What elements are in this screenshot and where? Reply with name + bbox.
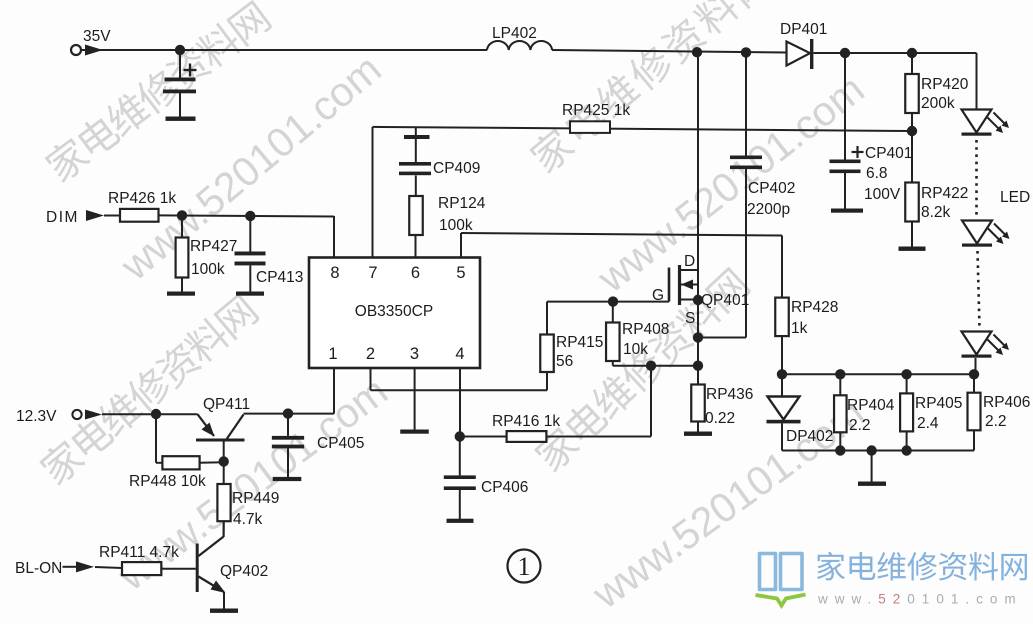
svg-text:CP413: CP413 <box>256 269 303 286</box>
svg-text:RP416 1k: RP416 1k <box>492 413 560 430</box>
svg-text:200k: 200k <box>921 95 955 112</box>
svg-text:6.8: 6.8 <box>866 165 888 182</box>
svg-text:6: 6 <box>411 264 420 282</box>
svg-text:2.2: 2.2 <box>849 417 871 434</box>
svg-text:DIM: DIM <box>46 209 79 226</box>
svg-text:0.22: 0.22 <box>705 410 735 427</box>
svg-text:RP405: RP405 <box>915 395 962 412</box>
svg-text:RP411 4.7k: RP411 4.7k <box>99 544 179 561</box>
svg-text:35V: 35V <box>83 28 111 45</box>
svg-text:100k: 100k <box>191 261 225 278</box>
svg-text:12.3V: 12.3V <box>16 408 57 425</box>
svg-text:RP422: RP422 <box>921 185 968 202</box>
svg-text:CP401: CP401 <box>865 145 912 162</box>
svg-text:RP408: RP408 <box>622 321 669 338</box>
svg-text:RP415: RP415 <box>556 334 603 351</box>
svg-text:RP420: RP420 <box>921 76 969 93</box>
svg-text:OB3350CP: OB3350CP <box>355 303 433 320</box>
svg-text:100V: 100V <box>864 186 901 203</box>
svg-text:CP402: CP402 <box>748 180 795 197</box>
svg-text:RP124: RP124 <box>438 195 486 212</box>
svg-text:8.2k: 8.2k <box>921 204 951 221</box>
svg-text:4.7k: 4.7k <box>233 511 263 528</box>
svg-text:2: 2 <box>366 345 375 363</box>
svg-text:1k: 1k <box>791 320 808 337</box>
svg-text:LP402: LP402 <box>492 25 537 42</box>
svg-text:1: 1 <box>518 552 531 581</box>
svg-text:DP402: DP402 <box>786 428 833 445</box>
svg-text:RP427: RP427 <box>190 238 237 255</box>
svg-text:5: 5 <box>456 264 465 282</box>
svg-text:QP411: QP411 <box>203 396 250 413</box>
svg-text:RP404: RP404 <box>847 397 895 414</box>
svg-text:RP436: RP436 <box>706 386 753 403</box>
svg-text:DP401: DP401 <box>780 21 827 38</box>
svg-text:RP449: RP449 <box>232 490 279 507</box>
svg-text:CP409: CP409 <box>433 160 480 177</box>
svg-text:56: 56 <box>556 353 573 370</box>
svg-text:LED: LED <box>1000 189 1030 206</box>
svg-text:BL-ON: BL-ON <box>15 560 62 577</box>
svg-text:QP402: QP402 <box>220 563 268 580</box>
svg-text:www.520101.com: www.520101.com <box>817 592 1023 607</box>
svg-text:1: 1 <box>328 345 337 363</box>
svg-text:2.4: 2.4 <box>917 415 939 432</box>
svg-text:3: 3 <box>410 345 419 363</box>
svg-text:CP406: CP406 <box>481 479 528 496</box>
svg-text:QP401: QP401 <box>701 292 749 309</box>
svg-text:S: S <box>685 310 695 327</box>
svg-text:2.2: 2.2 <box>985 413 1007 430</box>
svg-text:RP428: RP428 <box>791 299 838 316</box>
svg-text:4: 4 <box>455 345 464 363</box>
svg-text:RP448 10k: RP448 10k <box>129 473 206 490</box>
svg-text:8: 8 <box>330 264 339 282</box>
svg-text:7: 7 <box>368 264 377 282</box>
svg-text:2200p: 2200p <box>747 201 790 218</box>
svg-text:CP405: CP405 <box>317 435 364 452</box>
svg-text:RP425 1k: RP425 1k <box>562 102 630 119</box>
svg-text:100k: 100k <box>439 217 473 234</box>
svg-text:10k: 10k <box>623 341 648 358</box>
svg-text:RP406: RP406 <box>983 394 1030 411</box>
svg-text:RP426 1k: RP426 1k <box>108 190 176 207</box>
svg-text:D: D <box>684 253 695 270</box>
svg-text:G: G <box>652 287 664 304</box>
